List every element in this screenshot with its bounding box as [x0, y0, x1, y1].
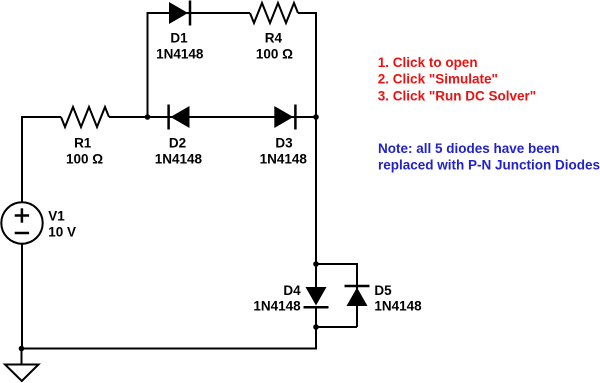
node junction dot bottom of D4/D5: [313, 324, 319, 330]
resistor R4 100 ohm (zigzag): [250, 3, 298, 23]
svg-text:1N4148: 1N4148: [156, 46, 204, 61]
svg-text:D2: D2: [169, 136, 186, 151]
wire right vertical below D4 to bottom wire: [315, 307, 317, 349]
wire top branch right segment (R4 to top-right corner): [298, 12, 316, 14]
diode D1 (pointing right) triangle: [169, 2, 188, 24]
wire bottom horizontal (ground node to right vertical): [22, 348, 318, 350]
wire middle horizontal left (V+ node to R1): [22, 116, 61, 118]
wire middle horizontal (R1 to D2, through node A to D3, to node B): [109, 116, 316, 118]
svg-text:Note: all 5 diodes have been: Note: all 5 diodes have been: [378, 141, 560, 156]
ground node junction dot: [19, 346, 25, 352]
svg-text:1N4148: 1N4148: [253, 298, 301, 313]
svg-text:R4: R4: [265, 31, 283, 46]
wire left vertical below V1 to ground node: [21, 244, 23, 349]
wire top branch left segment (to D1 and on to R4): [147, 12, 251, 14]
svg-text:1N4148: 1N4148: [155, 152, 203, 167]
diode D3 (pointing right) triangle: [274, 106, 293, 128]
svg-text:1N4148: 1N4148: [374, 298, 422, 313]
svg-text:R1: R1: [74, 136, 92, 151]
svg-text:D3: D3: [275, 136, 293, 151]
diode D1 cathode bar: [189, 1, 192, 26]
svg-text:3. Click "Run DC Solver": 3. Click "Run DC Solver": [378, 88, 536, 103]
resistor R1 100 ohm (zigzag): [61, 107, 109, 127]
wire D5 branch top horizontal (node B to D5): [316, 263, 357, 265]
node B junction dot (middle right): [313, 114, 319, 120]
diode D2 (pointing left) triangle: [171, 106, 190, 128]
svg-text:D5: D5: [374, 283, 392, 298]
svg-text:10 V: 10 V: [48, 225, 76, 240]
diode D4 cathode bar: [304, 306, 329, 309]
V1 minus sign: [15, 232, 29, 235]
diode D5 (pointing up) triangle: [347, 288, 368, 307]
diode D5 cathode bar: [345, 285, 370, 288]
wire D5 branch bottom horizontal back to node C: [316, 326, 357, 328]
svg-text:D1: D1: [170, 31, 188, 46]
voltage source V1 circle: [1, 202, 42, 243]
svg-text:100 Ω: 100 Ω: [256, 46, 293, 61]
diode D2 cathode bar: [167, 105, 170, 130]
wire top-left vertical from middle node up to top branch: [147, 13, 149, 117]
svg-text:D4: D4: [283, 283, 301, 298]
svg-text:100 Ω: 100 Ω: [66, 152, 103, 167]
svg-text:V1: V1: [48, 209, 65, 224]
svg-text:replaced with P-N Junction Dio: replaced with P-N Junction Diodes: [378, 158, 600, 173]
svg-text:1. Click to open: 1. Click to open: [378, 55, 478, 70]
wire D5 branch vertical: [356, 263, 358, 327]
svg-text:2. Click "Simulate": 2. Click "Simulate": [378, 72, 498, 87]
node junction dot top of D4/D5: [313, 261, 319, 267]
node A junction dot (D2 branch / top branch): [145, 114, 151, 120]
V1 plus sign: [15, 214, 29, 217]
diode D3 cathode bar: [294, 105, 297, 130]
svg-text:1N4148: 1N4148: [260, 152, 308, 167]
ground symbol: [21, 349, 23, 365]
wire right vertical (top corner down through node B to D4): [315, 12, 317, 287]
diode D4 (pointing down) triangle: [306, 287, 327, 306]
wire left vertical above V1: [21, 116, 23, 202]
